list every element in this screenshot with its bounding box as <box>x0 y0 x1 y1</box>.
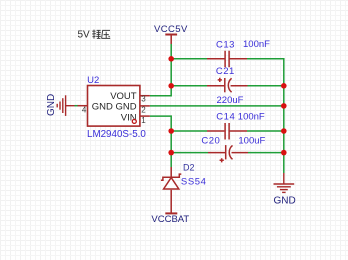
junction (284,131) <box>281 128 287 134</box>
junction (171,59) <box>168 56 174 62</box>
capacitor C14 <box>207 112 265 140</box>
svg-text:GND GND: GND GND <box>92 102 137 113</box>
svg-text:100nF: 100nF <box>238 112 265 123</box>
junction (284,106) <box>281 103 287 109</box>
junction (171,86) <box>168 83 174 89</box>
wire VIN vertical bus <box>150 116 171 167</box>
junction (284,86) <box>281 83 287 89</box>
svg-text:GND: GND <box>46 94 57 116</box>
svg-text:5V: 5V <box>78 29 91 40</box>
ground GND left (rotated) <box>57 95 74 116</box>
glyph 压 <box>102 30 111 38</box>
svg-text:4: 4 <box>82 106 87 115</box>
pin 2 GND <box>140 105 150 107</box>
svg-text:SS54: SS54 <box>181 177 207 188</box>
capacitor C21 (polarized) <box>207 66 248 106</box>
svg-text:3: 3 <box>141 95 146 104</box>
wire GND pin2 row <box>150 105 284 107</box>
junction (171,131) <box>168 128 174 134</box>
diode D2 (Schottky) <box>161 163 207 204</box>
wire C14 right <box>247 130 284 132</box>
wire C14 left <box>171 130 207 132</box>
svg-text:220uF: 220uF <box>217 95 244 106</box>
svg-text:C13: C13 <box>216 40 235 51</box>
glyph 稳 <box>92 30 96 39</box>
wire C21 left <box>171 85 207 87</box>
wire VCC5V vertical to VOUT <box>150 44 171 96</box>
svg-text:2: 2 <box>141 106 146 115</box>
power flag VCC5V <box>154 24 188 44</box>
wire C20 right <box>248 152 284 154</box>
ground GND right <box>274 173 295 192</box>
wire C13 right to right bus <box>247 59 284 173</box>
wire C20 left <box>171 152 208 154</box>
svg-text:C21: C21 <box>216 66 235 77</box>
wire C13 left <box>171 58 207 60</box>
svg-text:C14: C14 <box>216 112 235 123</box>
svg-text:GND: GND <box>274 196 296 207</box>
svg-text:VOUT: VOUT <box>110 91 137 102</box>
svg-text:VCCBAT: VCCBAT <box>151 214 189 225</box>
svg-text:C20: C20 <box>201 136 220 147</box>
svg-text:1: 1 <box>141 116 146 125</box>
pin 4 GND left <box>78 105 88 107</box>
svg-text:VIN: VIN <box>121 113 137 124</box>
wire C21 right <box>248 85 284 87</box>
regulator U2 LM2940S-5.0 <box>87 75 146 140</box>
svg-text:U2: U2 <box>87 75 99 86</box>
pin 1 VIN <box>140 115 150 117</box>
svg-text:LM2940S-5.0: LM2940S-5.0 <box>87 129 146 140</box>
junction (284,152.6) <box>281 150 287 156</box>
svg-text:D2: D2 <box>183 163 195 173</box>
junction (171,152.6) <box>168 150 174 156</box>
power flag VCCBAT <box>151 204 189 226</box>
capacitor C20 (polarized) <box>201 136 265 163</box>
wire GND left stub <box>75 105 79 107</box>
svg-text:100uF: 100uF <box>238 136 265 147</box>
capacitor C13 <box>207 39 270 67</box>
pin 3 VOUT <box>140 95 150 97</box>
svg-text:100nF: 100nF <box>243 39 270 50</box>
svg-text:VCC5V: VCC5V <box>154 24 188 35</box>
